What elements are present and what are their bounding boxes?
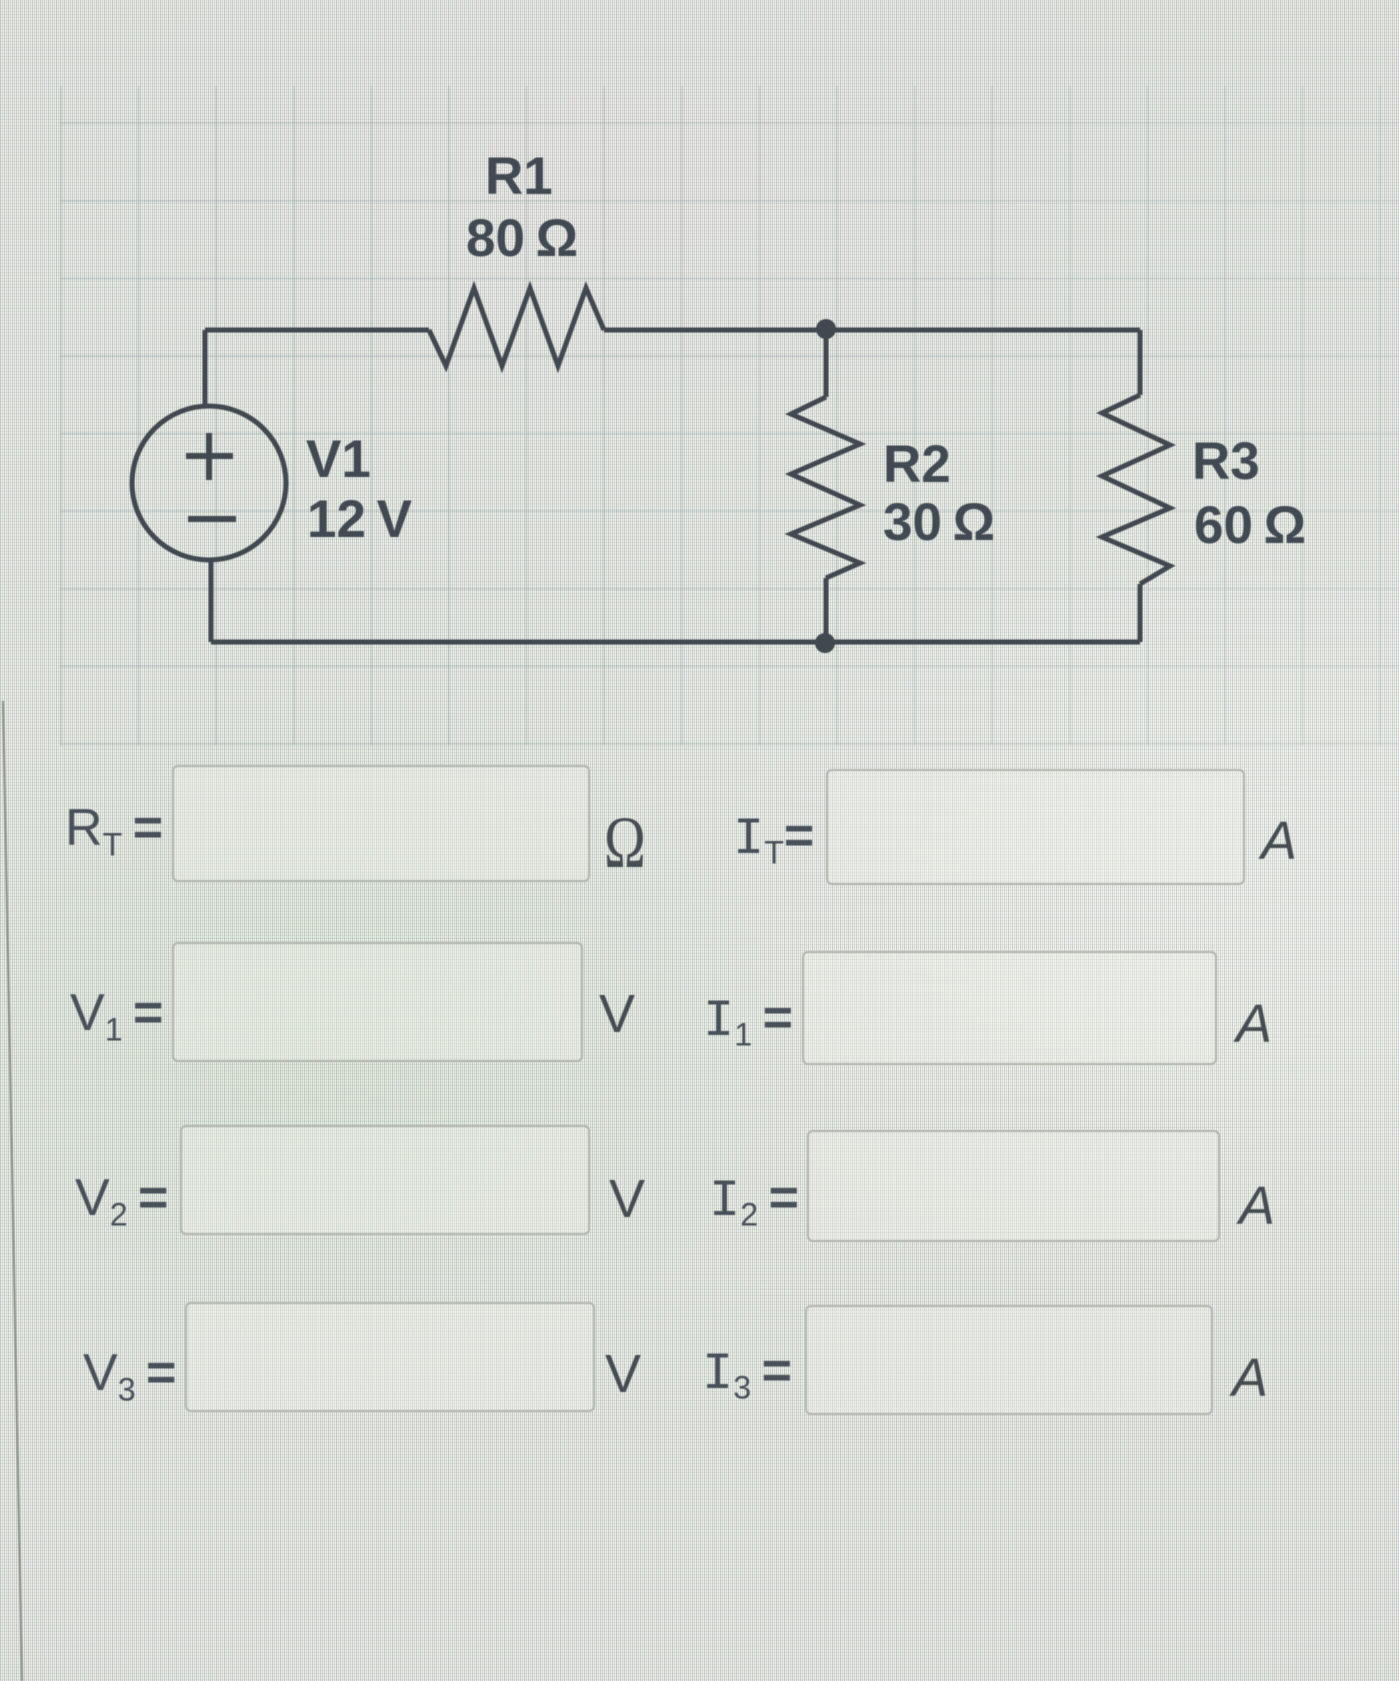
wire: R2 top lead <box>824 329 829 397</box>
voltage source V1 circle <box>132 406 286 560</box>
row 3: I2 <box>709 1168 799 1231</box>
row 2: I1 <box>703 988 793 1051</box>
wire: left vertical into source top <box>203 330 208 406</box>
wire: top horizontal from R1 to right corner <box>604 328 1140 333</box>
resistor R2 zigzag <box>791 397 860 578</box>
label R1 <box>485 146 553 207</box>
value 30 ohm <box>883 492 995 553</box>
page edge line bottom-left <box>0 681 60 1681</box>
wire: R3 top lead <box>1138 330 1143 395</box>
value 12 V <box>307 489 412 550</box>
wire: top-left horizontal from source to R1 <box>205 328 429 333</box>
wire: R3 bottom lead <box>1138 584 1143 642</box>
row 4: V3 <box>83 1343 176 1403</box>
wire: bottom horizontal <box>211 640 1140 645</box>
row 2: V1 <box>70 983 163 1043</box>
row 1: RT <box>65 798 163 858</box>
plus sign <box>186 433 233 480</box>
wire: R2 bottom lead <box>824 578 829 643</box>
value 80 ohm <box>466 208 578 269</box>
value 60 ohm <box>1194 495 1306 556</box>
row 1: IT <box>733 806 814 869</box>
node B: bottom junction dot <box>815 633 835 653</box>
wire: bottom vertical from source <box>209 560 214 642</box>
resistor R1 zigzag <box>429 288 604 366</box>
node A: top junction dot <box>816 319 836 339</box>
row 4: I3 <box>702 1341 792 1404</box>
row 3: V2 <box>75 1168 168 1228</box>
label R3 <box>1192 431 1260 492</box>
label R2 <box>883 434 951 495</box>
label V1 <box>306 429 371 490</box>
minus sign <box>188 516 236 522</box>
resistor R3 zigzag <box>1102 395 1170 584</box>
